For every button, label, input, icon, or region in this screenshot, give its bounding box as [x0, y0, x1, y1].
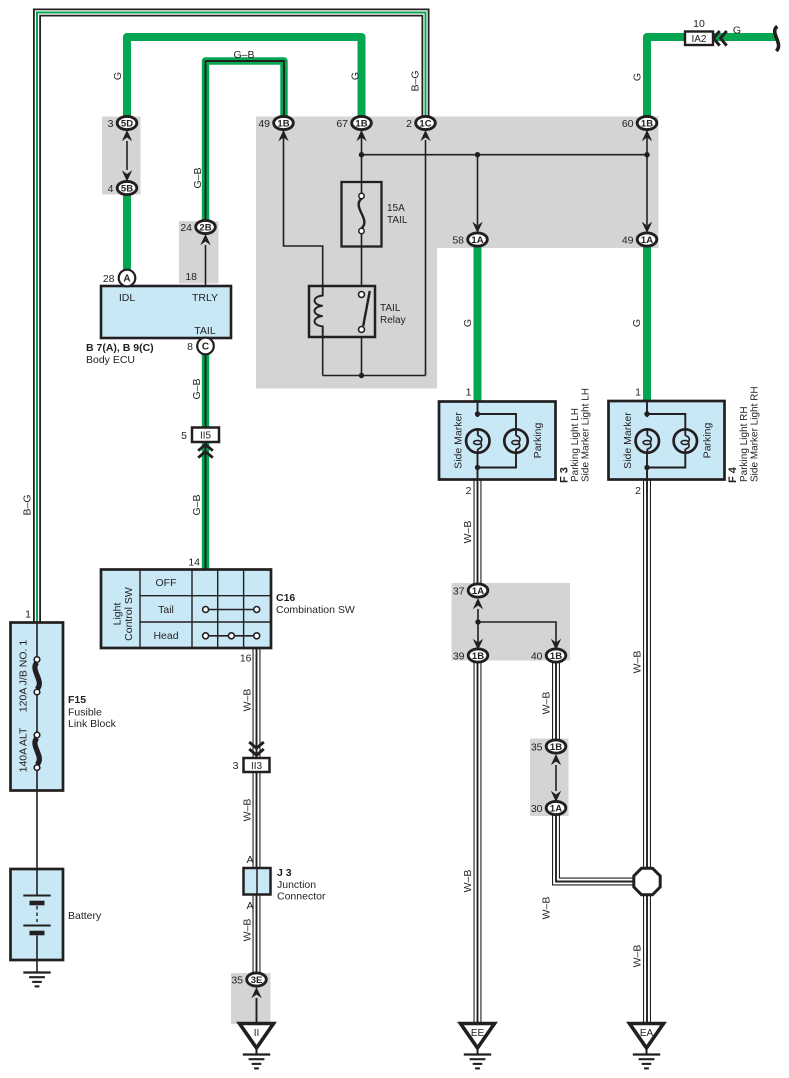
- connector 40 1B: [531, 649, 566, 662]
- svg-text:G–B: G–B: [233, 49, 254, 61]
- svg-text:3: 3: [108, 118, 114, 130]
- wires between 37/39/40: [478, 609, 556, 648]
- connector 4 5B: [108, 181, 137, 194]
- svg-text:140A ALT: 140A ALT: [18, 727, 30, 772]
- wire B-G from F15 up over the top to connector 1C: [37, 13, 426, 625]
- svg-text:B–G: B–G: [410, 70, 422, 91]
- F3 side marker bulb: [466, 429, 489, 452]
- svg-text:Body ECU: Body ECU: [86, 354, 135, 366]
- wire relay coil to bottom bus: [322, 337, 324, 376]
- svg-text:G: G: [112, 72, 124, 80]
- svg-text:EA: EA: [640, 1028, 654, 1039]
- ground triangle II: [240, 1024, 274, 1055]
- arrow into 5D: [122, 130, 132, 141]
- wire G from connector 5B down to Body ECU pin 28: [123, 192, 131, 272]
- svg-text:G: G: [350, 72, 362, 80]
- ground triangle EA ground bars: [633, 1055, 660, 1069]
- junction octagon: [634, 868, 660, 894]
- svg-text:G: G: [462, 319, 474, 327]
- F4 parking bulb: [674, 429, 697, 452]
- svg-text:II3: II3: [251, 761, 263, 772]
- connector 58 1A: [452, 233, 487, 246]
- svg-text:Connector: Connector: [277, 891, 326, 903]
- connector 3 II3: [233, 758, 270, 772]
- svg-text:W–B: W–B: [242, 799, 254, 822]
- svg-text:G: G: [733, 25, 741, 37]
- pin 28 A: [103, 270, 135, 287]
- wire from 3E to ground II: [256, 998, 258, 1025]
- wire W-B from junction octagon down to ground EA: [643, 894, 651, 1024]
- svg-text:W–B: W–B: [242, 689, 254, 712]
- svg-text:4: 4: [108, 183, 114, 195]
- svg-text:1C: 1C: [419, 118, 431, 129]
- svg-text:W–B: W–B: [462, 870, 474, 893]
- svg-text:3E: 3E: [251, 975, 263, 986]
- battery box: [11, 869, 64, 960]
- svg-text:F 3: F 3: [559, 467, 571, 483]
- svg-text:8: 8: [187, 341, 193, 353]
- svg-text:G–B: G–B: [192, 167, 204, 188]
- connector 2 1C: [406, 116, 435, 129]
- F3 top junction: [475, 411, 480, 416]
- wire W-B from connector 1A(30) to junction octagon: [556, 814, 634, 882]
- off-page squiggle: [775, 26, 779, 51]
- wire drop to 1A(49): [646, 131, 648, 225]
- svg-text:1: 1: [635, 387, 641, 399]
- svg-text:Side Marker: Side Marker: [622, 412, 634, 469]
- arrow into 1A(30): [551, 791, 561, 802]
- F4 side marker bulb: [636, 429, 659, 452]
- svg-text:2: 2: [466, 485, 472, 497]
- svg-text:IDL: IDL: [119, 292, 136, 304]
- svg-text:35: 35: [231, 974, 243, 986]
- wire from 2B to Body ECU pin 18: [205, 245, 207, 286]
- svg-text:W–B: W–B: [462, 521, 474, 544]
- wire from 1C(2) down to relay output: [425, 140, 427, 376]
- wire between 5D and 5B: [126, 141, 128, 170]
- svg-text:TAIL: TAIL: [194, 325, 216, 337]
- F4 internal wiring: [647, 401, 685, 480]
- svg-text:Parking: Parking: [702, 423, 714, 459]
- arrow into 3E: [251, 987, 261, 998]
- wire W-B from connector 1B(40) down to connector 1B(35): [552, 662, 560, 740]
- svg-text:1A: 1A: [471, 235, 483, 246]
- arrow into 5B: [122, 170, 132, 181]
- svg-text:1A: 1A: [472, 586, 484, 597]
- svg-text:B 7(A), B 9(C): B 7(A), B 9(C): [86, 342, 154, 354]
- svg-text:C16: C16: [276, 592, 295, 604]
- wire from 1B(67) to fuse: [361, 130, 363, 182]
- connector 24 2B: [180, 220, 215, 233]
- wire W-B from combination switch pin 16 down to connector 3E: [253, 647, 261, 972]
- switch contacts Tail row: [203, 607, 260, 613]
- connector 39 1B: [453, 649, 488, 662]
- connector 60 1B: [622, 116, 657, 129]
- arrow into 1B(40): [551, 639, 561, 650]
- svg-text:II: II: [254, 1028, 260, 1039]
- svg-text:24: 24: [180, 222, 192, 234]
- combination switch grid lines: [140, 570, 271, 649]
- svg-text:14: 14: [188, 557, 200, 569]
- svg-text:1: 1: [25, 609, 31, 621]
- svg-text:B–G: B–G: [22, 494, 34, 515]
- F3 parking bulb: [504, 429, 527, 452]
- svg-text:Junction: Junction: [277, 879, 316, 891]
- wire drop to 1A(58): [477, 155, 479, 225]
- svg-text:Parking Light RH: Parking Light RH: [739, 406, 750, 482]
- svg-text:W–B: W–B: [541, 692, 553, 715]
- wire between 35 and 30: [555, 765, 557, 791]
- wire G from connector 1A(49) down to F4 pin 1: [643, 244, 651, 402]
- arrow into 1B(60): [642, 130, 652, 141]
- svg-text:F 4: F 4: [727, 466, 739, 483]
- svg-text:G: G: [631, 319, 643, 327]
- svg-text:W–B: W–B: [242, 919, 254, 942]
- arrow into 2B: [200, 234, 210, 245]
- svg-text:5B: 5B: [121, 183, 133, 194]
- double chevron below II5: [198, 445, 213, 458]
- svg-text:Parking Light LH: Parking Light LH: [570, 408, 581, 482]
- junction below 1A(37): [475, 619, 480, 624]
- svg-text:C: C: [202, 342, 209, 353]
- svg-text:W–B: W–B: [632, 945, 644, 968]
- switch contacts Head row: [203, 633, 260, 639]
- wire G-B from Body ECU pin 8 down to combination switch pin 14: [202, 350, 209, 570]
- svg-text:1B: 1B: [472, 651, 484, 662]
- battery symbol: [23, 869, 50, 960]
- svg-text:TAIL: TAIL: [387, 215, 408, 226]
- svg-text:TAIL: TAIL: [380, 303, 401, 314]
- double chevron at IA2: [714, 31, 727, 46]
- wire from battery to ground: [36, 960, 38, 973]
- connector 35 1B: [531, 740, 566, 753]
- shade behind 35 3E connector: [231, 973, 271, 1024]
- svg-text:EE: EE: [471, 1028, 485, 1039]
- arrow into 1B(35): [551, 754, 561, 765]
- svg-text:J 3: J 3: [277, 867, 292, 879]
- svg-text:1A: 1A: [641, 235, 653, 246]
- shade central junction block: [256, 117, 659, 389]
- junction at fuse feed: [359, 152, 364, 157]
- wire G-B from connector 2B up over to connector 1B(49): [206, 61, 285, 222]
- ground triangle EA: [630, 1024, 664, 1055]
- svg-text:Battery: Battery: [68, 910, 102, 922]
- double chevron above II3: [249, 742, 264, 755]
- svg-text:2: 2: [635, 485, 641, 497]
- bus wire across junction block: [362, 154, 648, 156]
- shade behind 2B connector: [179, 221, 219, 284]
- wire W-B from F3 pin 2 down to connector 1A(37): [474, 479, 482, 584]
- svg-text:1B: 1B: [355, 118, 367, 129]
- F3 internal wiring: [478, 402, 517, 480]
- svg-text:49: 49: [258, 118, 270, 130]
- svg-text:5D: 5D: [121, 118, 133, 129]
- ground triangle II ground bars: [243, 1055, 270, 1069]
- svg-text:W–B: W–B: [632, 651, 644, 674]
- wire G from off-page through IA2 down to connector 1B(60): [647, 37, 776, 118]
- connector 67 1B: [336, 116, 371, 129]
- svg-text:OFF: OFF: [156, 577, 177, 589]
- svg-text:A: A: [246, 900, 253, 912]
- connector 3 5D: [108, 116, 137, 129]
- svg-text:W–B: W–B: [541, 897, 553, 920]
- svg-text:F15: F15: [68, 694, 86, 706]
- connector 5 II5: [181, 428, 219, 443]
- svg-text:28: 28: [103, 273, 115, 285]
- svg-text:TRLY: TRLY: [192, 292, 218, 304]
- svg-text:G: G: [632, 73, 644, 81]
- svg-text:Head: Head: [153, 630, 178, 642]
- svg-text:30: 30: [531, 803, 543, 815]
- svg-text:Parking: Parking: [532, 423, 544, 459]
- svg-text:39: 39: [453, 650, 465, 662]
- svg-text:IA2: IA2: [691, 34, 706, 45]
- pin 8 C: [187, 338, 214, 355]
- svg-text:A: A: [123, 274, 130, 285]
- svg-text:3: 3: [233, 760, 239, 772]
- svg-text:1B: 1B: [277, 118, 289, 129]
- svg-text:60: 60: [622, 118, 634, 130]
- svg-text:58: 58: [452, 234, 464, 246]
- svg-text:40: 40: [531, 650, 543, 662]
- light assembly F3 box: [439, 402, 556, 480]
- junction connector J 3: [244, 868, 271, 895]
- junction above 1A(49): [644, 152, 649, 157]
- F3 bottom junction: [475, 465, 480, 470]
- svg-text:5: 5: [181, 430, 187, 442]
- relay TAIL Relay: [309, 286, 375, 337]
- svg-text:1B: 1B: [641, 118, 653, 129]
- ground below battery: [23, 973, 50, 987]
- ground triangle EE ground bars: [464, 1055, 491, 1069]
- connector 30 1A: [531, 801, 566, 814]
- arrow into 1A(49): [642, 222, 652, 233]
- Body ECU box: [101, 286, 231, 338]
- bottom bus wire in junction block: [323, 375, 426, 377]
- svg-text:Side Marker Light RH: Side Marker Light RH: [750, 386, 761, 482]
- ground triangle EE: [461, 1024, 495, 1055]
- svg-text:15A: 15A: [387, 203, 405, 214]
- svg-text:1B: 1B: [550, 742, 562, 753]
- svg-text:Tail: Tail: [158, 604, 174, 616]
- arrow into 1A(58): [472, 222, 482, 233]
- F4 bottom junction: [644, 465, 649, 470]
- svg-text:35: 35: [531, 741, 543, 753]
- F4 top junction: [644, 411, 649, 416]
- svg-text:Link Block: Link Block: [68, 718, 117, 730]
- svg-text:2: 2: [406, 118, 412, 130]
- arrow into 1A(37) from below: [473, 598, 483, 609]
- wire inside junction block from 1B(49) to relay coil: [284, 130, 323, 286]
- junction at relay output: [359, 373, 364, 378]
- wire G from connector 5D up over to connector 1B(67): [127, 37, 362, 118]
- wire relay switch to bottom bus: [361, 337, 363, 376]
- svg-text:A: A: [246, 854, 253, 866]
- shade behind 37/39/40 connectors: [452, 583, 571, 661]
- svg-text:37: 37: [453, 585, 465, 597]
- light assembly F4 box: [609, 401, 725, 480]
- svg-text:1: 1: [466, 387, 472, 399]
- wire G from connector 1A(58) down to F3 pin 1: [474, 244, 482, 402]
- svg-text:120A J/B NO. 1: 120A J/B NO. 1: [18, 640, 30, 713]
- svg-text:Side Marker Light LH: Side Marker Light LH: [581, 388, 592, 482]
- fusible link block F15 box: [11, 623, 64, 791]
- arrow into 1B(67): [356, 130, 366, 141]
- svg-text:10: 10: [693, 18, 705, 30]
- svg-text:67: 67: [336, 118, 348, 130]
- wire from fuse to relay switch: [361, 246, 363, 286]
- arrow into 1C(2): [420, 130, 430, 141]
- svg-text:G–B: G–B: [191, 494, 203, 515]
- combination switch C16 box: [101, 570, 271, 649]
- arrow into 1B(39): [473, 639, 483, 650]
- svg-text:1B: 1B: [550, 651, 562, 662]
- connector 35 3E: [231, 973, 266, 986]
- shade behind 5D/5B connectors: [102, 117, 141, 195]
- fusible link 120A J/B NO. 1: [34, 623, 40, 733]
- svg-text:Side Marker: Side Marker: [453, 412, 465, 469]
- wire from F15 to battery: [36, 791, 38, 870]
- svg-text:II5: II5: [200, 431, 212, 442]
- svg-text:Relay: Relay: [380, 315, 406, 326]
- svg-text:G–B: G–B: [191, 378, 203, 399]
- shade behind 35/30 connectors: [530, 739, 569, 817]
- arrow into 1B(49): [278, 130, 288, 141]
- connector 49 1A: [622, 233, 657, 246]
- wire W-B from F4 pin 2 down to junction octagon: [643, 479, 651, 869]
- junction above 1A(58): [475, 152, 480, 157]
- svg-text:1A: 1A: [550, 803, 562, 814]
- connector 10 IA2: [685, 18, 713, 45]
- svg-text:2B: 2B: [199, 222, 211, 233]
- svg-text:Fusible: Fusible: [68, 707, 102, 719]
- fusible link 140A ALT: [34, 732, 40, 790]
- svg-text:49: 49: [622, 234, 634, 246]
- fuse 15A TAIL: [342, 182, 382, 247]
- connector 49 1B: [258, 116, 293, 129]
- svg-text:18: 18: [185, 271, 197, 283]
- svg-text:16: 16: [240, 653, 252, 665]
- svg-text:Combination SW: Combination SW: [276, 604, 355, 616]
- connector 37 1A: [453, 584, 488, 597]
- wire W-B from connector 1B(39) down to ground EE: [474, 662, 482, 1024]
